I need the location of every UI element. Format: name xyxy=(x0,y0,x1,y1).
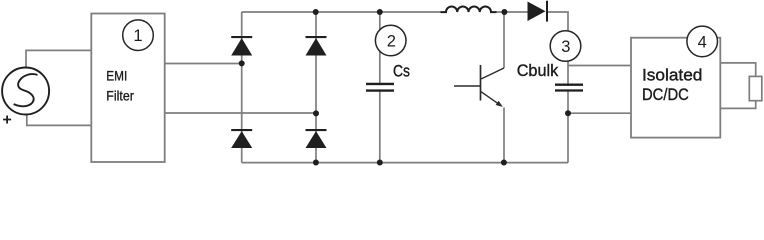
wire: bridge left leg xyxy=(241,12,243,163)
svg-text:EMI: EMI xyxy=(106,67,127,83)
svg-text:Filter: Filter xyxy=(106,87,134,103)
wire: top rail xyxy=(242,11,441,13)
callout circle 4 xyxy=(687,26,718,57)
wire: top rail inductor to diode xyxy=(496,11,528,13)
wire: Cbulk bottom to rail xyxy=(567,90,569,163)
junction top rail at Cs xyxy=(377,9,383,15)
diode D1 bridge top-left xyxy=(231,36,252,56)
wire: Cbulk node to DC/DC top xyxy=(568,65,631,67)
AC source V1 xyxy=(2,68,49,115)
callout circle 2 xyxy=(375,25,406,56)
wire: load to DC/DC bottom xyxy=(720,101,755,109)
wire: Cs branch xyxy=(379,12,381,163)
capacitor Cs xyxy=(366,84,394,91)
wire: bridge right leg xyxy=(315,12,317,163)
svg-text:Isolated: Isolated xyxy=(642,65,702,84)
resistor load xyxy=(749,76,762,100)
wire: Cbulk node to DC/DC bottom xyxy=(568,112,631,114)
transistor Q1 xyxy=(454,65,504,105)
transistor Q1 emitter arrowhead xyxy=(496,101,503,107)
junction bottom rail at Cs xyxy=(377,160,383,166)
junction Cbulk bottom xyxy=(565,110,571,116)
transistor Q1 collector wire xyxy=(503,12,505,68)
transistor Q1 emitter wire xyxy=(503,108,505,163)
junction bottom rail at right leg xyxy=(313,160,319,166)
diode D2 bridge top-right xyxy=(306,36,327,56)
wire: DC/DC to load top xyxy=(720,63,755,77)
svg-text:4: 4 xyxy=(698,33,707,51)
junction top rail at collector xyxy=(501,9,507,15)
EMI Filter box xyxy=(91,14,164,163)
wire: bottom rail xyxy=(242,162,568,164)
diode D5 boost xyxy=(528,1,549,22)
inductor L1 xyxy=(441,6,497,12)
svg-text:1: 1 xyxy=(133,27,142,45)
svg-text:DC/DC: DC/DC xyxy=(642,85,689,104)
diode D3 bridge bottom-left xyxy=(231,129,252,148)
junction top rail at right leg xyxy=(313,9,319,15)
diode D4 bridge bottom-right xyxy=(306,129,327,148)
svg-text:Cbulk: Cbulk xyxy=(517,61,559,80)
callout circle 1 xyxy=(123,20,154,51)
wire: EMI filter to bridge left leg xyxy=(165,63,242,65)
capacitor Cbulk xyxy=(555,85,583,91)
AC sine symbol xyxy=(14,74,38,106)
plus polarity mark xyxy=(3,116,11,124)
junction bottom rail at emitter xyxy=(501,160,507,166)
wire: EMI filter to bridge right leg xyxy=(165,112,316,114)
wire: diode to Cbulk node xyxy=(547,12,568,86)
svg-text:Cs: Cs xyxy=(393,61,410,80)
junction right leg mid xyxy=(313,110,319,116)
svg-text:2: 2 xyxy=(387,33,396,51)
Isolated DC/DC box xyxy=(631,38,720,138)
svg-text:3: 3 xyxy=(561,38,570,56)
wire: AC source to EMI filter bottom xyxy=(27,114,92,125)
wire: AC source to EMI filter top xyxy=(26,50,91,68)
callout circle 3 xyxy=(550,31,581,62)
junction left leg mid xyxy=(239,60,245,66)
